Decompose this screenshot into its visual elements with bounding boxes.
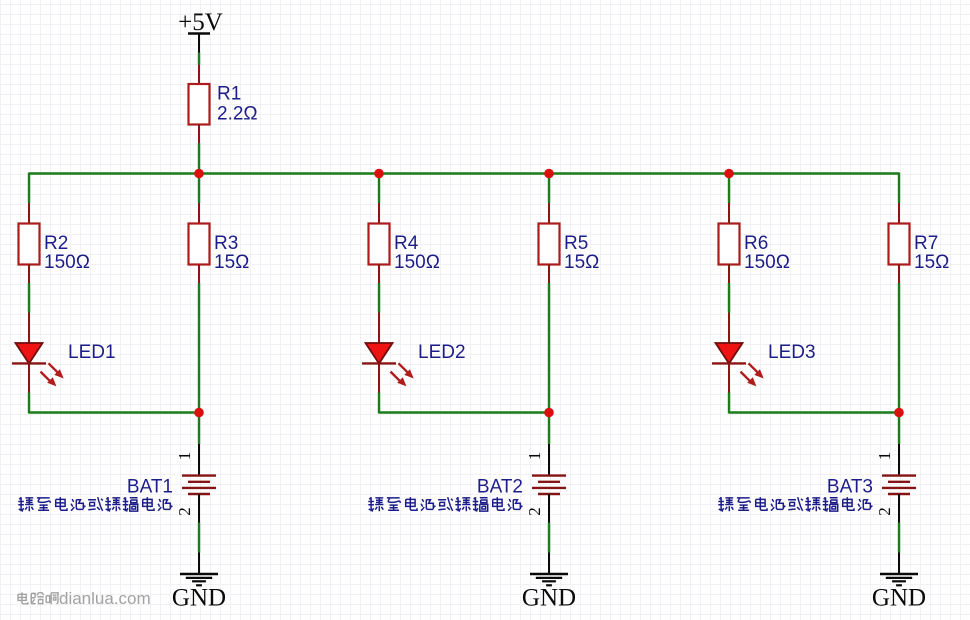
junction [724, 169, 734, 179]
svg-text:+5V: +5V [178, 9, 223, 36]
wire [728, 393, 730, 414]
wire [29, 411, 199, 413]
svg-text:1: 1 [525, 452, 544, 461]
svg-text:dianlua.com: dianlua.com [59, 589, 151, 608]
wire [378, 393, 380, 414]
svg-text:2: 2 [175, 507, 194, 516]
resistor R4 [369, 203, 390, 283]
svg-text:2.2Ω: 2.2Ω [217, 104, 258, 125]
svg-text:R3: R3 [214, 233, 238, 254]
label R4 value 150Ω [394, 233, 440, 273]
battery BAT3 [882, 444, 916, 523]
wire [28, 283, 30, 313]
label R6 value 150Ω [744, 233, 790, 273]
label R7 value 15Ω [914, 233, 949, 273]
wire [379, 411, 549, 413]
wire [548, 413, 550, 445]
junction [544, 169, 554, 179]
svg-text:15Ω: 15Ω [914, 252, 949, 273]
wire [28, 393, 30, 414]
wire [378, 173, 380, 204]
LED LED1 [12, 313, 64, 393]
power rail +5V [188, 34, 210, 53]
svg-text:150Ω: 150Ω [44, 252, 90, 273]
resistor R2 [19, 203, 40, 283]
svg-text:LED1: LED1 [68, 342, 116, 363]
svg-text:2: 2 [525, 507, 544, 516]
svg-text:R5: R5 [564, 233, 588, 254]
value label 镍氢电池或镍镉电池 [368, 497, 522, 511]
junction [194, 408, 204, 418]
resistor R3 [189, 203, 210, 283]
LED LED3 [712, 313, 764, 393]
watermark 电路啊dianlua.com [18, 589, 151, 608]
svg-text:150Ω: 150Ω [744, 252, 790, 273]
resistor R7 [889, 203, 910, 283]
ground [880, 553, 918, 586]
svg-text:BAT1: BAT1 [127, 477, 173, 498]
wire [548, 283, 550, 413]
label R2 value 150Ω [44, 233, 90, 273]
wire [198, 523, 200, 553]
svg-text:R4: R4 [394, 233, 419, 254]
resistor R6 [719, 203, 740, 283]
wire [728, 283, 730, 313]
LED LED2 [362, 313, 414, 393]
svg-text:GND: GND [522, 585, 576, 612]
wire [898, 173, 900, 204]
wire [728, 173, 730, 204]
wire [198, 53, 200, 66]
value label 镍氢电池或镍镉电池 [18, 497, 172, 511]
wire [898, 413, 900, 445]
svg-text:1: 1 [875, 452, 894, 461]
svg-text:R1: R1 [217, 84, 241, 105]
svg-text:2: 2 [875, 507, 894, 516]
svg-text:GND: GND [872, 585, 926, 612]
ground [530, 553, 568, 586]
wire [28, 173, 30, 204]
label R1 value 2.2Ω [217, 84, 258, 125]
wire [198, 173, 200, 204]
svg-text:1: 1 [175, 452, 194, 461]
resistor R1 [189, 65, 210, 143]
resistor R5 [539, 203, 560, 283]
junction [374, 169, 384, 179]
svg-text:BAT2: BAT2 [477, 477, 523, 498]
wire [198, 283, 200, 413]
label R3 value 15Ω [214, 233, 249, 273]
bus wire [29, 172, 899, 174]
svg-text:15Ω: 15Ω [564, 252, 599, 273]
svg-text:BAT3: BAT3 [827, 477, 873, 498]
wire [378, 283, 380, 313]
junction [894, 408, 904, 418]
wire [898, 523, 900, 553]
label R5 value 15Ω [564, 233, 599, 273]
ground [180, 553, 218, 586]
wire [548, 173, 550, 204]
junction [544, 408, 554, 418]
wire [729, 411, 899, 413]
svg-text:GND: GND [172, 585, 226, 612]
value label 镍氢电池或镍镉电池 [718, 497, 872, 511]
wire [198, 413, 200, 445]
battery BAT1 [182, 444, 216, 523]
svg-text:LED2: LED2 [418, 342, 466, 363]
svg-text:LED3: LED3 [768, 342, 816, 363]
battery BAT2 [532, 444, 566, 523]
svg-text:R2: R2 [44, 233, 68, 254]
svg-text:150Ω: 150Ω [394, 252, 440, 273]
svg-text:R6: R6 [744, 233, 768, 254]
svg-text:R7: R7 [914, 233, 938, 254]
wire [898, 283, 900, 413]
junction [194, 169, 204, 179]
svg-text:15Ω: 15Ω [214, 252, 249, 273]
wire [548, 523, 550, 553]
wire [198, 143, 200, 174]
